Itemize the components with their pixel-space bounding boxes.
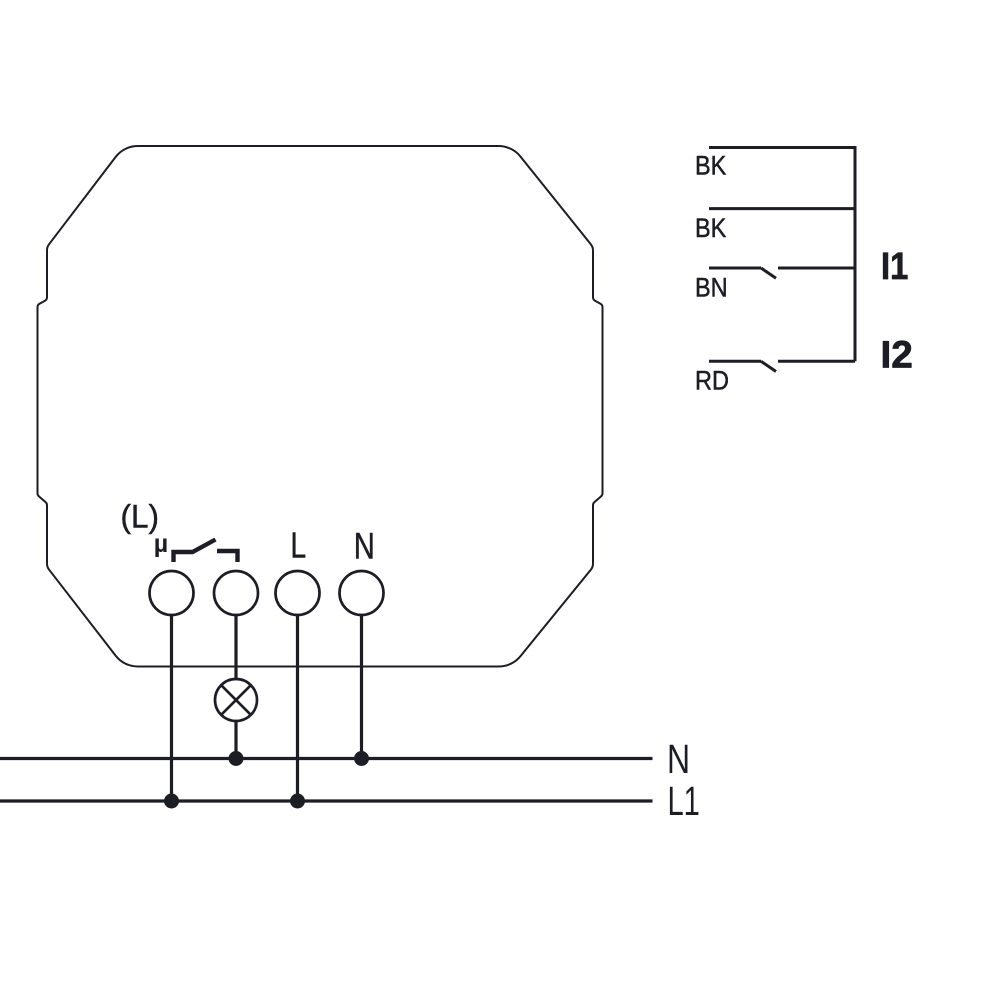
junction dot w2/N [229,751,244,766]
sensor wire RD with switch [709,360,761,363]
svg-text:N: N [667,736,690,782]
svg-text:L: L [291,525,307,565]
wire terminal4 to N [360,615,363,759]
svg-text:RD: RD [695,366,729,396]
terminal circle 2 (lamp out) [214,571,258,615]
svg-text:µ: µ [154,530,168,558]
N power line [0,757,653,760]
sensor wire BK1 [709,146,855,149]
svg-text:BN: BN [695,273,728,303]
lamp symbol [215,679,257,721]
wire lamp to N [234,721,237,759]
terminal circle 3 (L) [276,571,320,615]
terminal circle 1 ((L)) [150,571,194,615]
svg-text:N: N [354,526,375,567]
wire terminal1 to L1 [170,615,173,801]
sensor wire BK2 [709,207,855,210]
svg-text:I1: I1 [881,245,908,288]
svg-text:BK: BK [695,151,726,181]
svg-text:BK: BK [695,213,726,243]
wire terminal2 to lamp [234,615,237,679]
junction dot w3/L1 [290,794,305,809]
junction dot w1/L1 [164,794,179,809]
terminal circle 4 (N) [340,571,384,615]
device housing outline [37,146,602,667]
sensor bus vertical [854,146,857,361]
L1 power line [0,799,653,802]
sensor wire BN with switch [709,267,761,270]
wire terminal3 to L1 [296,615,299,801]
relay contact symbol [174,540,216,563]
svg-text:L1: L1 [668,778,700,824]
svg-text:I2: I2 [881,334,913,377]
junction dot w4/N [354,751,369,766]
